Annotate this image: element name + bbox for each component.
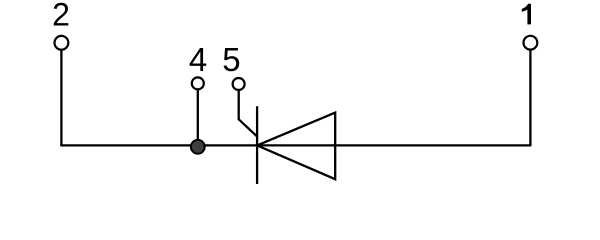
svg-text:4: 4 [189,41,207,78]
junction node dot [191,140,205,154]
terminal label 1 [522,4,531,25]
terminal pin 5 circle [233,78,245,90]
wire pin2 vertical [60,50,62,146]
wire bottom horizontal [60,144,531,146]
thyristor cathode bar [256,106,258,184]
wire pin4 vertical [197,89,199,146]
terminal label 2 [52,0,70,33]
terminal pin 4 circle [192,77,204,89]
svg-text:5: 5 [222,41,240,78]
terminal pin 1 circle [524,36,538,50]
terminal label 4 [189,41,207,78]
terminal label 5 [222,41,240,78]
terminal pin 2 circle [55,36,69,50]
wire pin5 gate lead [239,90,257,136]
svg-text:2: 2 [52,0,70,33]
thyristor triangle [257,113,335,180]
wire pin1 vertical [529,50,531,146]
